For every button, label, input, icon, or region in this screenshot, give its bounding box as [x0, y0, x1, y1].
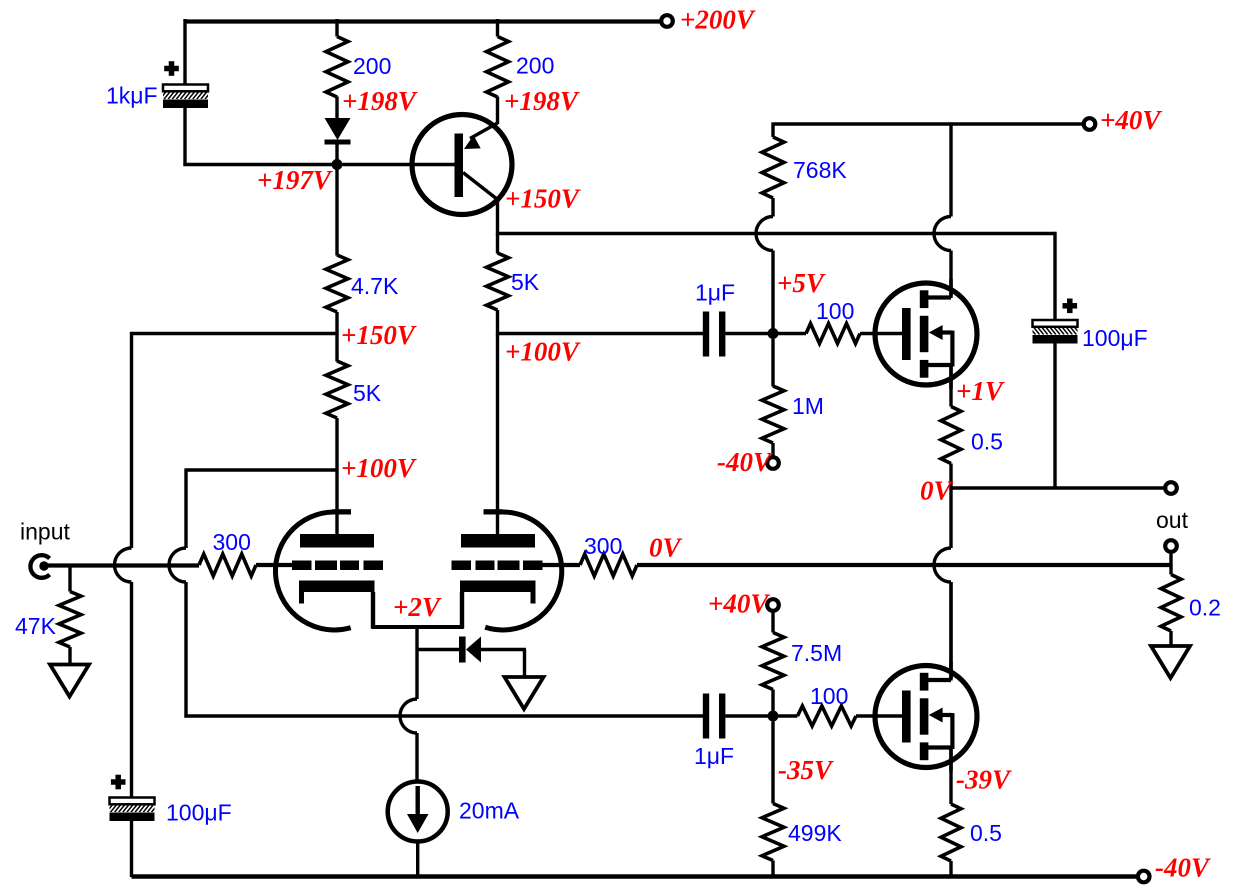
resistor R17 0.5 bottom	[941, 804, 961, 861]
resistor R6 47K stub	[68, 565, 71, 592]
wire C3 to +5V node	[725, 332, 773, 335]
svg-text:200: 200	[516, 53, 554, 79]
svg-text:100μF: 100μF	[166, 800, 232, 826]
hop C over bottom feedback wire	[400, 699, 417, 733]
capacitor C4 100uF	[1025, 320, 1084, 344]
svg-text:100: 100	[810, 683, 848, 709]
svg-text:300: 300	[213, 529, 251, 555]
label R16 499K	[788, 820, 842, 846]
svg-text:+198V: +198V	[342, 86, 418, 116]
wire R6 to ground	[68, 647, 71, 665]
wire R10 stubs	[773, 332, 903, 335]
wire cap to node	[183, 108, 337, 167]
svg-text:-35V: -35V	[778, 755, 834, 785]
capacitor C5 1uF	[703, 694, 726, 739]
label +150V at Q1	[505, 184, 581, 214]
resistor R3 5K right	[487, 253, 509, 310]
svg-text:100: 100	[816, 298, 854, 324]
hop B over input wire	[169, 548, 186, 582]
resistor R11 1M	[762, 386, 784, 443]
capacitor C2 plus sign	[111, 775, 126, 790]
capacitor C3 1uF	[703, 312, 726, 357]
wire +40V rail	[773, 122, 1089, 125]
svg-text:0.2: 0.2	[1189, 595, 1221, 621]
wire hop to +5V node	[771, 251, 774, 336]
label R1 200	[353, 53, 391, 79]
label C5 1uF	[694, 743, 734, 769]
wire M1 drain to +40V rail	[949, 122, 952, 216]
label +5V	[777, 268, 826, 298]
wire C4 to 0V wire	[1053, 343, 1056, 490]
label -40V mid	[717, 447, 773, 477]
resistor R2 200	[487, 37, 509, 98]
wire node to R11	[771, 339, 774, 387]
svg-text:+40V: +40V	[708, 589, 770, 619]
capacitor C2 100uF	[102, 798, 161, 822]
wire terminal to R14	[771, 610, 774, 633]
label 0V mid	[649, 533, 683, 563]
wire M2 drain up	[949, 582, 952, 681]
svg-text:+150V: +150V	[505, 184, 581, 214]
label out	[1156, 507, 1189, 533]
wire R7 to grid	[256, 563, 293, 567]
terminal -40V mid	[767, 457, 779, 469]
wire +100V feedback	[186, 468, 337, 471]
wire R5 stubs	[335, 334, 338, 471]
label 20mA	[459, 798, 520, 824]
svg-text:+2V: +2V	[393, 592, 442, 622]
wire 0V node down	[949, 488, 952, 548]
svg-text:47K: 47K	[15, 613, 57, 639]
label +198V left	[342, 86, 418, 116]
wire feedback vertical B upper	[184, 468, 187, 548]
wire R4 to +150V node	[335, 312, 338, 335]
wire R12 to 0V node	[949, 464, 952, 490]
resistor R9 768K	[762, 137, 784, 198]
resistor R5 5K left	[326, 361, 348, 418]
svg-text:+150V: +150V	[341, 320, 417, 350]
label R7 300	[213, 529, 251, 555]
junction -35V node	[768, 711, 779, 722]
wire M1 drain up	[949, 251, 952, 299]
svg-text:1M: 1M	[792, 393, 824, 419]
svg-text:input: input	[20, 519, 70, 545]
label +40V top	[1100, 105, 1162, 135]
wire 768K branch top	[771, 122, 774, 137]
resistor R1 200 stub	[335, 19, 338, 37]
input jack	[30, 555, 49, 578]
label R13 0.2	[1189, 595, 1221, 621]
ground at D2	[505, 677, 544, 709]
wire current source to rail	[416, 841, 419, 877]
label R9 768K	[793, 157, 847, 183]
label +198V right	[504, 86, 580, 116]
wire cap branch top	[183, 19, 186, 85]
wire R13 stubs	[1169, 565, 1172, 647]
wire feedback vertical A lower	[130, 582, 133, 799]
svg-text:+197V: +197V	[257, 165, 333, 195]
wire to current source	[415, 733, 418, 783]
label 1kuF	[106, 83, 158, 109]
label +150V left	[341, 320, 417, 350]
label R3 5K	[511, 269, 540, 295]
resistor R4 4.7K	[326, 255, 348, 312]
svg-text:out: out	[1156, 507, 1189, 533]
svg-text:1μF: 1μF	[694, 743, 734, 769]
mosfet M1 top	[875, 279, 977, 389]
ground input	[50, 665, 89, 697]
resistor R10 100 top	[806, 324, 860, 344]
svg-text:+200V: +200V	[680, 5, 756, 35]
label R4 4.7K	[351, 273, 399, 299]
wire R15 stubs	[773, 714, 903, 717]
label C3 1uF	[695, 280, 735, 306]
terminal out	[1165, 540, 1177, 552]
terminal +40V top	[1084, 118, 1096, 130]
svg-text:+1V: +1V	[956, 376, 1005, 406]
wire M2 source down	[949, 748, 952, 805]
label R2 200	[516, 53, 554, 79]
svg-text:0.5: 0.5	[971, 429, 1003, 455]
tube V1 left triode	[275, 509, 383, 630]
terminal output top	[1165, 482, 1177, 494]
label R8 300	[584, 533, 622, 559]
wire +150V feedback	[132, 332, 338, 335]
wire -40V bottom rail	[132, 874, 1139, 879]
resistor R16 499K	[762, 804, 784, 861]
capacitor C4 plus sign	[1063, 299, 1078, 314]
wire V2 grid to R8	[543, 563, 581, 567]
label R5 5K	[353, 380, 382, 406]
resistor R14 7.5M	[762, 633, 784, 690]
label C4 100uF	[1082, 325, 1148, 351]
junction node +197V	[332, 159, 343, 170]
resistor R12 0.5 top	[941, 407, 961, 464]
wire left tube plate lead	[335, 470, 338, 534]
wire C5 to -35V node	[725, 714, 773, 717]
ground at output	[1151, 646, 1190, 678]
svg-text:+100V: +100V	[505, 337, 581, 367]
wire node to R4	[335, 169, 338, 256]
terminal +200V	[661, 15, 673, 27]
wire feedback vertical B lower	[184, 582, 187, 718]
label +100V left	[341, 453, 417, 483]
label R12 0.5	[971, 429, 1003, 455]
svg-text:300: 300	[584, 533, 622, 559]
label +40V bottom	[708, 589, 770, 619]
label R17 0.5	[970, 820, 1002, 846]
wire +100V node to coupling cap	[498, 332, 704, 335]
wire +150V corner down	[1053, 232, 1056, 321]
wire Q1 collector down	[496, 198, 499, 235]
svg-text:0V: 0V	[649, 533, 683, 563]
wire 0V long	[637, 563, 1171, 567]
label +197V	[257, 165, 333, 195]
svg-text:+198V: +198V	[504, 86, 580, 116]
wire R16 to rail	[771, 861, 774, 878]
svg-text:4.7K: 4.7K	[351, 273, 399, 299]
wire +200V top rail	[185, 19, 667, 23]
resistor R15 100 bottom	[798, 706, 857, 726]
wire feedback vertical A upper	[130, 332, 133, 548]
capacitor C1 plus sign	[164, 61, 179, 76]
hop E over +150V wire	[934, 217, 951, 251]
diode D1	[325, 118, 351, 145]
resistor R8 300 right	[580, 554, 637, 576]
svg-text:-39V: -39V	[956, 765, 1012, 795]
resistor R1 200	[326, 37, 348, 98]
svg-text:768K: 768K	[793, 157, 847, 183]
wire bottom feedback horizontal	[184, 714, 703, 717]
wire D2 anode	[481, 650, 526, 679]
resistor R2 200 stub	[496, 19, 499, 37]
svg-text:5K: 5K	[353, 380, 382, 406]
label input	[20, 519, 70, 545]
svg-text:0V: 0V	[920, 476, 954, 506]
svg-text:1μF: 1μF	[695, 280, 735, 306]
label R6 47K	[15, 613, 57, 639]
label +100V right	[505, 337, 581, 367]
label 0V right	[920, 476, 954, 506]
label -40V bottom	[1155, 853, 1211, 883]
svg-text:200: 200	[353, 53, 391, 79]
resistor R13 0.2	[1161, 575, 1181, 632]
svg-text:0.5: 0.5	[970, 820, 1002, 846]
svg-text:100μF: 100μF	[1082, 325, 1148, 351]
mosfet M2 bottom	[875, 662, 977, 772]
label -35V	[778, 755, 834, 785]
label +200V	[680, 5, 756, 35]
label R15 100	[810, 683, 848, 709]
wire R11 to terminal	[771, 443, 774, 458]
wire M1 source down	[949, 365, 952, 407]
terminal +40V bottom	[767, 599, 779, 611]
svg-text:-40V: -40V	[1155, 853, 1211, 883]
wire cathodes join +2V	[371, 625, 463, 629]
hop A over input wire	[115, 548, 132, 582]
label -39V	[956, 765, 1012, 795]
wire R14 to -35V node	[771, 690, 774, 718]
current source 20mA	[388, 782, 448, 842]
wire +2V to D2	[417, 648, 459, 651]
tube V2 right triode	[452, 509, 562, 630]
wire right tube plate lead	[496, 334, 499, 535]
wire 0V output	[951, 486, 1165, 489]
capacitor C1 1kuF	[156, 85, 215, 109]
resistor R7 300 left	[199, 554, 256, 576]
svg-text:+5V: +5V	[777, 268, 826, 298]
transistor Q1 PNP	[343, 115, 513, 215]
resistor R6 47K	[59, 592, 81, 648]
svg-text:5K: 5K	[511, 269, 540, 295]
wire input	[44, 563, 199, 567]
svg-text:20mA: 20mA	[459, 798, 520, 824]
terminal -40V bottom	[1138, 871, 1150, 883]
wire +150V feedforward to right	[498, 232, 1056, 235]
label R14 7.5M	[791, 640, 842, 666]
diode D2	[459, 637, 481, 663]
label +1V	[956, 376, 1005, 406]
wire D1 to node +197V	[335, 144, 338, 164]
wire cathode node down	[415, 627, 418, 699]
hop D over +150V wire	[756, 217, 773, 251]
junction +5V node	[768, 328, 779, 339]
wire out stub	[1169, 551, 1172, 567]
svg-text:499K: 499K	[788, 820, 842, 846]
svg-text:7.5M: 7.5M	[791, 640, 842, 666]
svg-text:-40V: -40V	[717, 447, 773, 477]
label R11 1M	[792, 393, 824, 419]
svg-text:1kμF: 1kμF	[106, 83, 158, 109]
wire R2 to Q1 emitter	[496, 97, 499, 125]
label C2 100uF	[166, 800, 232, 826]
svg-text:+100V: +100V	[341, 453, 417, 483]
wire R1 to diode	[335, 97, 338, 120]
wire node to R16	[771, 722, 774, 804]
label R10 100	[816, 298, 854, 324]
svg-text:+40V: +40V	[1100, 105, 1162, 135]
hop F over 0V long wire	[934, 548, 951, 582]
wire R3 stubs	[496, 234, 499, 336]
wire C2 to bottom rail	[130, 821, 133, 878]
wire R17 to rail	[949, 861, 952, 877]
wire R9 to hop	[771, 198, 774, 217]
label +2V	[393, 592, 442, 622]
wire to M2 drain	[949, 582, 952, 679]
